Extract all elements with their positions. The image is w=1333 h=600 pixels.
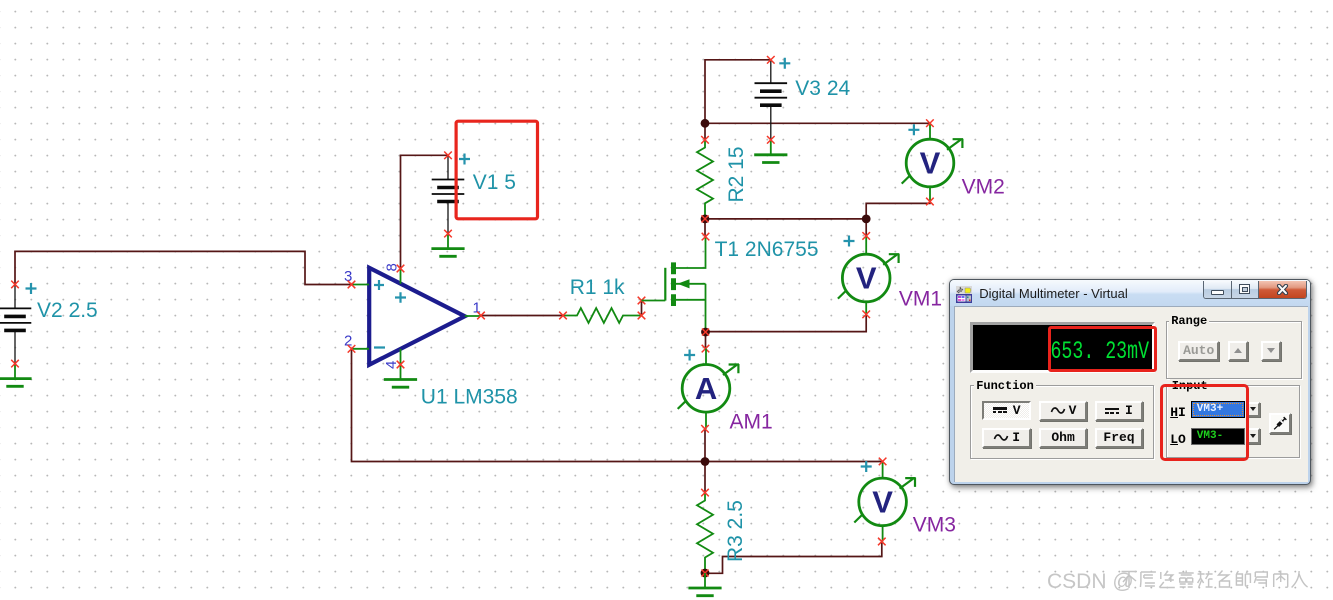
node pin3 <box>348 281 356 289</box>
transistor T1 2N6755 <box>642 237 706 332</box>
Function group box <box>970 385 1154 460</box>
node VM1- <box>862 311 870 319</box>
svg-text:V: V <box>872 484 893 519</box>
client area <box>954 306 1308 482</box>
title text <box>979 280 1128 306</box>
button Freq <box>1095 428 1143 448</box>
HI combo <box>1191 401 1246 418</box>
op-amp pin stubs <box>352 269 482 365</box>
window icon <box>956 286 972 303</box>
svg-text:R2 15: R2 15 <box>725 146 748 202</box>
svg-text:R1 1k: R1 1k <box>570 276 625 299</box>
node R1 right <box>638 312 646 320</box>
junction drain-top node <box>701 119 710 128</box>
Auto button <box>1178 341 1219 361</box>
LCD display <box>970 322 1155 373</box>
node VM1+ <box>862 232 870 240</box>
node pin4 <box>397 361 405 369</box>
battery V1 <box>432 155 465 233</box>
wire op-amp pin1 to R1 <box>481 315 563 317</box>
Input group box <box>1166 385 1300 459</box>
svg-text:VM1: VM1 <box>899 288 942 311</box>
plus mark VM3 <box>861 461 872 472</box>
node VM3+ <box>879 458 887 466</box>
button DC V (selected) <box>982 401 1031 421</box>
svg-text:V2 2.5: V2 2.5 <box>37 299 98 322</box>
svg-text:2: 2 <box>344 333 352 350</box>
watermark chinese glyphs <box>1122 571 1308 589</box>
node R3 top <box>701 489 709 497</box>
node R2 top <box>701 136 709 144</box>
probe button <box>1269 413 1291 434</box>
node gate wire <box>638 297 646 305</box>
ground for R3 <box>688 573 721 596</box>
LO label <box>1170 432 1186 447</box>
svg-text:V3 24: V3 24 <box>795 77 850 100</box>
wire VM3- return <box>705 542 882 574</box>
junction source node <box>701 328 710 337</box>
title bar <box>950 280 1310 306</box>
plus mark V3 <box>779 58 790 69</box>
Function label <box>974 379 1036 393</box>
node V3- pin <box>767 136 775 144</box>
node T1 source pin <box>702 345 710 353</box>
node V2+ pin <box>11 281 19 289</box>
plus mark VM2 <box>908 124 919 135</box>
resistor R1 <box>563 308 642 323</box>
wire V2+ to op-amp pin3 <box>15 251 352 284</box>
wire node to R3 top <box>704 462 706 493</box>
range up button <box>1228 341 1248 361</box>
wire source node to AM1+ <box>705 332 707 349</box>
ground for V3 <box>754 140 787 163</box>
wire op-amp pin8 to V1+ <box>401 155 449 268</box>
node V1+ pin <box>444 152 452 160</box>
button AC I <box>982 428 1031 448</box>
wire node to R2 top <box>704 123 706 140</box>
svg-text:V: V <box>920 146 941 181</box>
node R1 left <box>559 312 567 320</box>
svg-text:V: V <box>856 261 877 296</box>
wire node to VM1+ <box>865 219 867 236</box>
node VM2- <box>926 198 934 206</box>
junction VM1 branch node <box>862 215 871 224</box>
LO combo <box>1191 428 1246 445</box>
plus mark AM1 <box>684 350 695 361</box>
ground for V1 <box>431 234 464 257</box>
node VM2+ <box>926 119 934 127</box>
LCD reading text <box>950 337 1149 366</box>
multimeter window Digital Multimeter - Virtual <box>949 279 1311 485</box>
node pin8 <box>397 265 405 273</box>
range down button <box>1261 341 1281 361</box>
wire node drain-top to V3+ <box>705 60 771 124</box>
caption buttons <box>1203 281 1307 299</box>
Range group box <box>1166 321 1302 379</box>
wire AM1- to feedback node <box>704 429 706 462</box>
junction R2 bottom node <box>701 215 710 224</box>
node VM3- <box>878 538 886 546</box>
annotation red rectangle around LCD reading <box>1048 326 1156 372</box>
junction R3 bottom node <box>701 569 710 578</box>
wire R1 to T1 gate <box>641 301 643 316</box>
voltmeter VM1 <box>838 236 899 314</box>
LO combo arrow <box>1246 428 1259 444</box>
button DC I <box>1095 401 1143 421</box>
voltmeter VM2 <box>902 123 963 201</box>
resistor R3 <box>697 493 713 573</box>
ammeter AM1 <box>678 349 739 429</box>
op-amp input polarity marks <box>374 280 406 348</box>
ground for V2 <box>0 364 32 387</box>
plus mark V2 <box>26 283 37 294</box>
node T1 drain pin <box>702 233 710 241</box>
svg-text:VM2: VM2 <box>962 176 1005 199</box>
button Ohm <box>1039 428 1088 448</box>
svg-text:T1 2N6755: T1 2N6755 <box>715 238 819 261</box>
HI label <box>1170 405 1186 420</box>
node AM1- <box>701 425 709 433</box>
ground for op-amp pin4 <box>384 365 417 388</box>
wire R2 bottom node row <box>705 218 866 220</box>
svg-text:VM3: VM3 <box>913 514 956 537</box>
svg-text:A: A <box>695 371 717 406</box>
node V1- pin <box>444 230 452 238</box>
plus mark VM1 <box>844 236 855 247</box>
wire VM2- return <box>866 202 930 219</box>
wire node to T1 drain <box>704 219 706 237</box>
svg-text:CSDN @: CSDN @ <box>1047 570 1134 593</box>
Input label <box>1170 379 1210 393</box>
Range label <box>1169 314 1209 328</box>
node pin2 <box>348 345 356 353</box>
wire feedback op-amp pin2 to VM3+ <box>352 349 883 462</box>
button AC V <box>1039 401 1088 421</box>
wire node to VM2+ <box>705 122 930 124</box>
svg-text:V1 5: V1 5 <box>473 171 516 194</box>
plus mark V1 <box>459 154 470 165</box>
battery V3 <box>755 60 788 140</box>
HI combo arrow <box>1246 402 1259 418</box>
svg-text:U1 LM358: U1 LM358 <box>421 386 518 409</box>
svg-text:AM1: AM1 <box>730 411 773 434</box>
node V2- pin <box>11 360 19 368</box>
node pin1 <box>477 312 485 320</box>
node V3+ pin <box>767 56 775 64</box>
wire VM1- return <box>706 314 867 331</box>
junction feedback node <box>701 457 710 466</box>
svg-text:R3 2.5: R3 2.5 <box>724 500 747 562</box>
battery V2 <box>0 284 31 363</box>
voltmeter VM3 <box>854 461 915 541</box>
annotation red rectangle around Input group <box>1160 384 1249 461</box>
resistor R2 <box>697 140 713 219</box>
op-amp U1 triangle <box>369 268 465 365</box>
svg-text:3: 3 <box>344 268 352 285</box>
annotation red rectangle around V1 <box>456 121 537 219</box>
